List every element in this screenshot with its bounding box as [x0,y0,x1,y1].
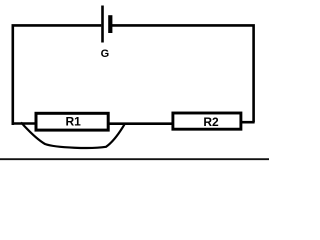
battery G long plate [101,6,104,43]
wire: top-left segment and left side of loop [13,25,102,125]
wire: arc bypassing R1 [21,123,125,148]
wire: between R1 and R2 [108,122,173,125]
resistor R1 box [36,113,108,130]
resistor R2 box [173,113,241,129]
wire: bottom-left horizontal to R1 [12,122,38,125]
wire: stub from R2 to right side [240,121,255,124]
svg-text:G: G [101,48,110,60]
battery G short thick plate [108,15,112,33]
bottom separator line [0,158,269,160]
svg-text:R2: R2 [203,115,219,129]
wire: top-right segment and right side of loop [112,25,254,122]
svg-text:R1: R1 [66,115,82,129]
